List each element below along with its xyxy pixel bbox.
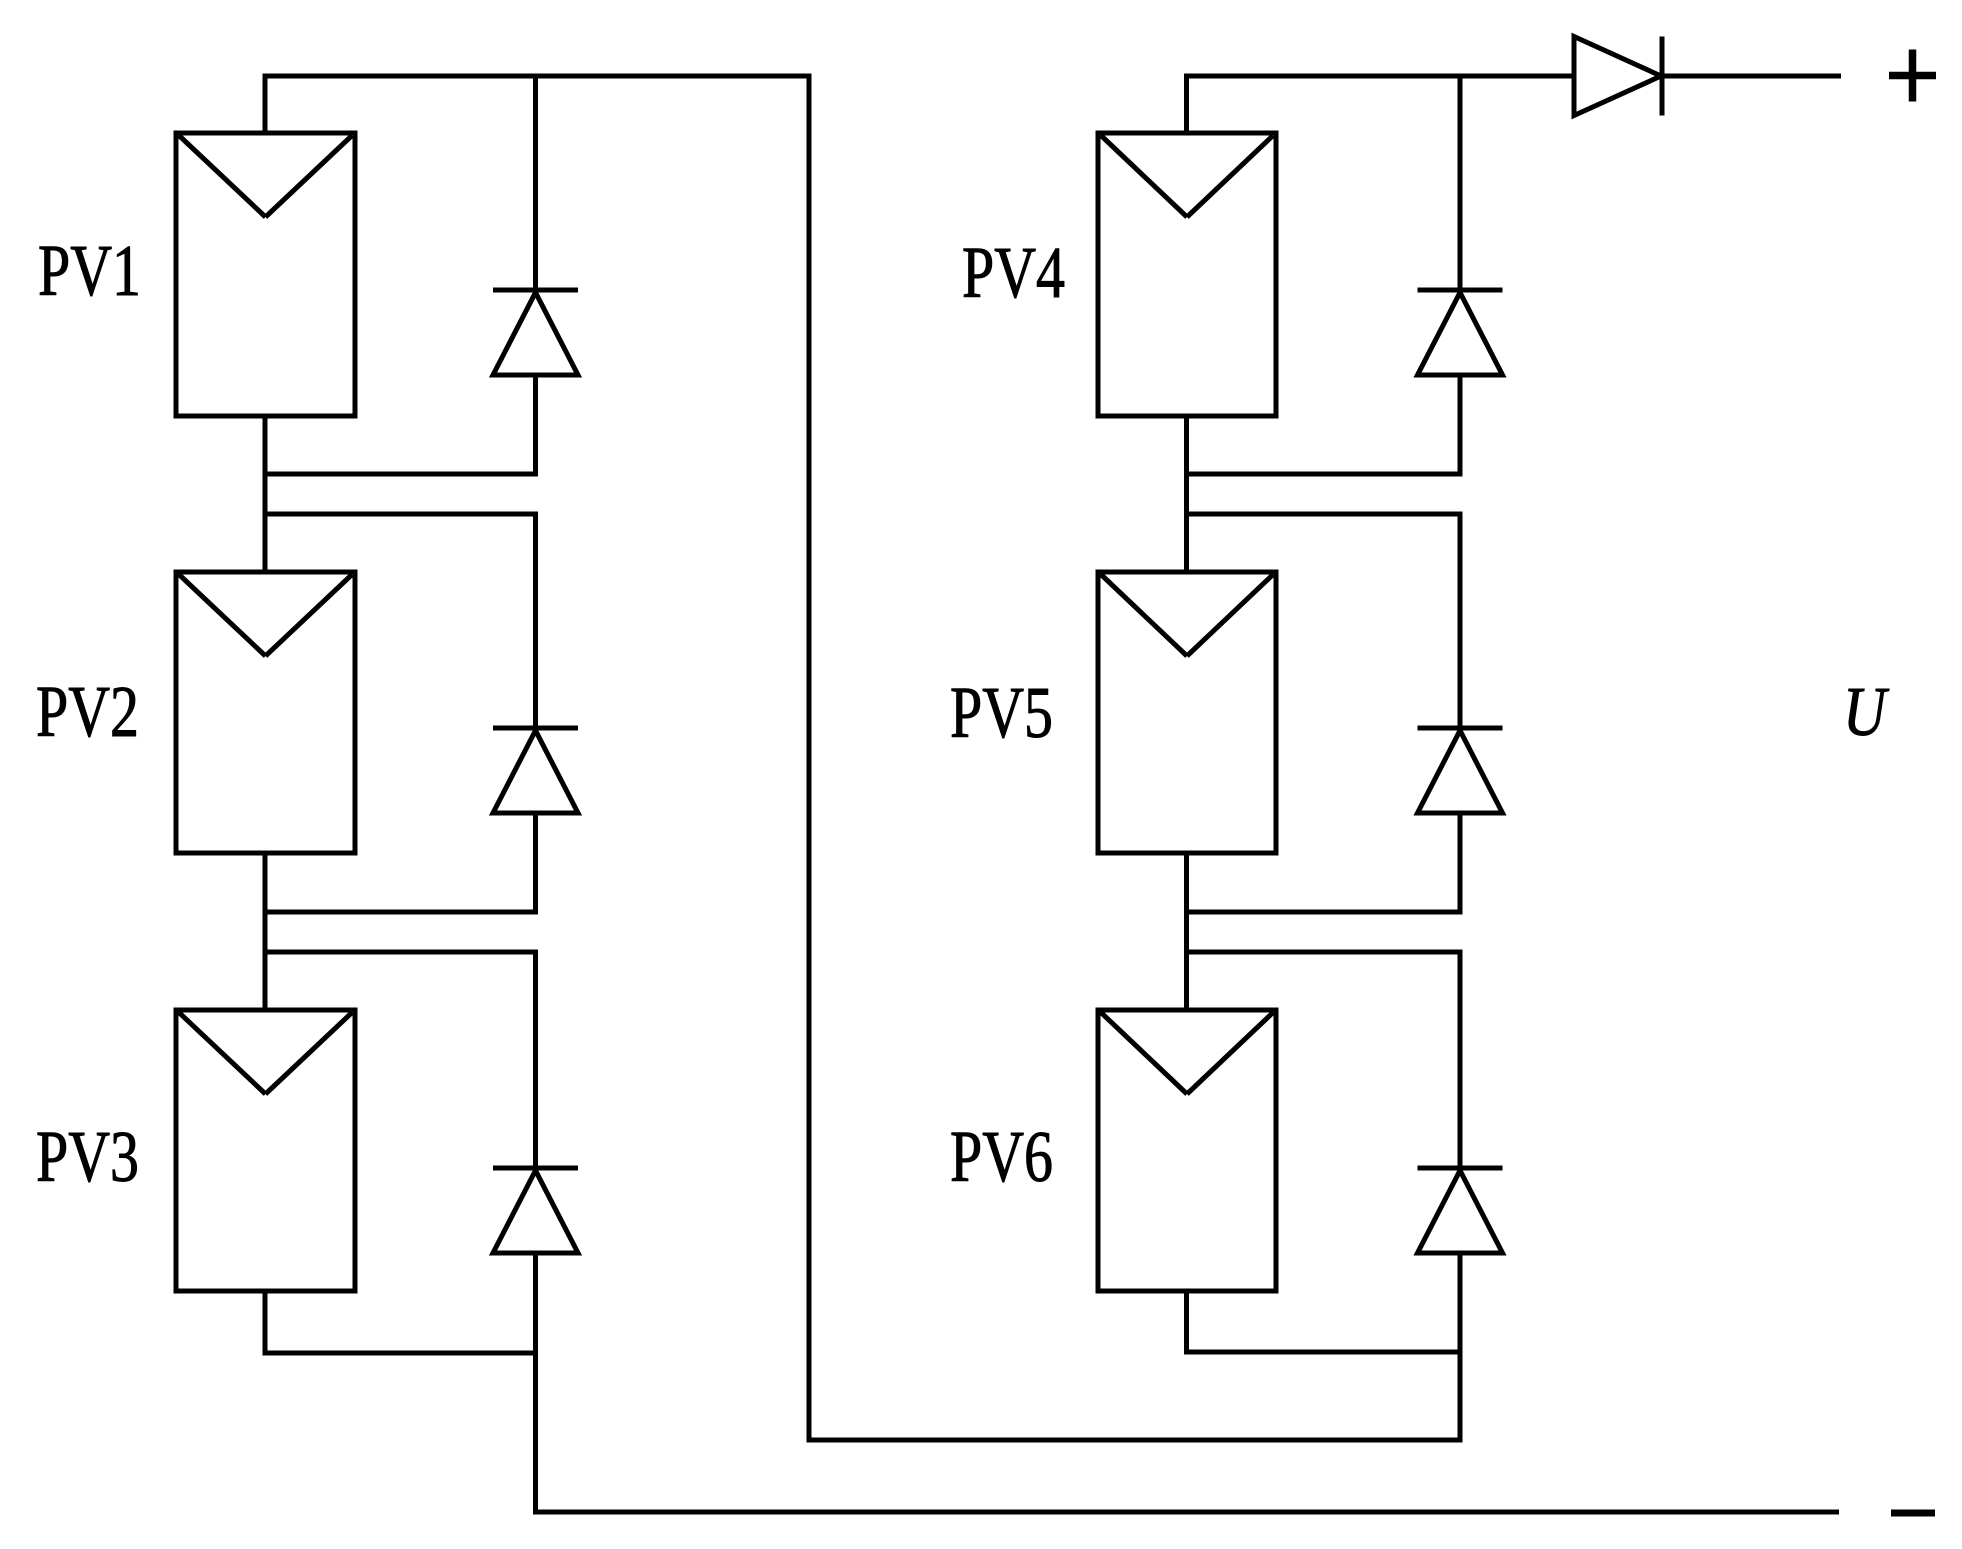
- diode D2 (bypass for PV2): [493, 728, 578, 813]
- wire: D1 cathode lead: [533, 76, 538, 290]
- wire: bottom junction bar PV3- to D3 anode: [263, 1351, 539, 1356]
- wire: D6 anode lead: [1458, 1253, 1463, 1440]
- wire: junction bar PV5- to D5 anode: [1184, 910, 1463, 915]
- wire: PV5 negative terminal to next module: [1184, 851, 1189, 1012]
- wire: PV2 negative terminal to next module: [263, 851, 268, 1012]
- svg-text:PV5: PV5: [950, 672, 1053, 753]
- wire: junction bar PV1- to D1 anode: [263, 472, 539, 477]
- svg-text:U: U: [1843, 674, 1890, 751]
- wire: D5 anode lead: [1458, 813, 1463, 912]
- wire: series link to right string bottom: [807, 1438, 1463, 1443]
- PV module PV4: [1098, 133, 1276, 416]
- wire: D2 cathode lead: [533, 514, 538, 728]
- svg-text:PV3: PV3: [36, 1116, 139, 1197]
- node: positive terminal (+): [1889, 50, 1936, 102]
- wire: D3 anode lead: [533, 1253, 538, 1512]
- svg-text:PV6: PV6: [950, 1116, 1053, 1197]
- diode D1 (bypass for PV1): [493, 290, 578, 375]
- wire: PV6 negative lead: [1184, 1289, 1189, 1352]
- diode D5 (bypass for PV5): [1418, 728, 1503, 813]
- svg-text:PV1: PV1: [38, 230, 141, 311]
- wire: bottom junction bar PV6- to D6 anode: [1184, 1350, 1463, 1355]
- wire: top bus of right string: [1184, 74, 1574, 79]
- node: negative terminal (-): [1891, 1510, 1935, 1517]
- wire: D1 anode lead: [533, 375, 538, 474]
- wire: junction bar PV2- to D2 anode: [263, 910, 539, 915]
- PV module PV1: [176, 133, 355, 416]
- wire: PV4 negative terminal to next module: [1184, 414, 1189, 574]
- wire: PV4 positive lead: [1184, 76, 1189, 135]
- svg-text:PV2: PV2: [36, 671, 139, 752]
- wire: junction bar next module + to next diode cathode: [1184, 950, 1463, 955]
- PV module PV2: [176, 572, 355, 853]
- diode D6 (bypass for PV6): [1418, 1168, 1503, 1253]
- wire: PV1 negative terminal to next module: [263, 414, 268, 574]
- wire: PV3 negative lead: [263, 1289, 268, 1353]
- PV module PV6: [1098, 1010, 1276, 1291]
- wire: negative bus (bottom): [533, 1510, 1839, 1515]
- PV module PV3: [176, 1010, 355, 1291]
- wire: PV1 positive lead: [263, 76, 268, 135]
- wire: D4 cathode lead: [1458, 76, 1463, 290]
- wire: D7 cathode to positive output: [1661, 74, 1841, 79]
- wire: D2 anode lead: [533, 813, 538, 912]
- wire: D6 cathode lead: [1458, 952, 1463, 1168]
- wire: junction bar next module + to next diode cathode: [1184, 512, 1463, 517]
- diode D3 (bypass for PV3): [493, 1168, 578, 1253]
- wire: D4 anode lead: [1458, 375, 1463, 474]
- diode D4 (bypass for PV4): [1418, 290, 1503, 375]
- wire: D5 cathode lead: [1458, 514, 1463, 728]
- wire: left string positive down-link (vertical): [807, 74, 812, 1443]
- wire: junction bar PV4- to D4 anode: [1184, 472, 1463, 477]
- wire: junction bar next module + to next diode cathode: [263, 512, 539, 517]
- diode D7 (blocking diode): [1574, 37, 1662, 116]
- wire: top bus of left string: [263, 74, 812, 79]
- wire: D3 cathode lead: [533, 952, 538, 1168]
- wire: junction bar next module + to next diode cathode: [263, 950, 539, 955]
- svg-text:PV4: PV4: [962, 232, 1065, 313]
- PV module PV5: [1098, 572, 1276, 853]
